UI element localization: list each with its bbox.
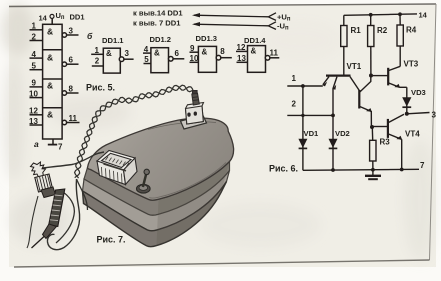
node dot R3 rail: [371, 168, 375, 172]
socket block: [97, 151, 137, 185]
node dot input1/VD1: [301, 84, 305, 88]
svg-text:7: 7: [58, 143, 63, 152]
connector block: [186, 103, 204, 125]
node dot R2 rail: [369, 13, 373, 17]
wire clip lead loop: [56, 190, 74, 243]
IC DD1 body: [43, 24, 63, 139]
svg-text:13: 13: [237, 54, 246, 63]
svg-text:5: 5: [32, 62, 37, 71]
svg-text:&: &: [47, 81, 53, 91]
svg-text:2: 2: [95, 57, 100, 66]
gate symbols &: [47, 27, 53, 120]
svg-text:VT3: VT3: [404, 60, 419, 69]
transistor VT2 phase splitter: [359, 76, 371, 128]
transistor VT4: [388, 114, 420, 169]
output pin 8: [62, 85, 78, 96]
node dot VD2 rail: [331, 168, 335, 172]
output node 3: [405, 111, 437, 120]
pin 10: [29, 89, 43, 98]
cable twisted strand A: [75, 85, 193, 177]
case middle band: [83, 171, 230, 231]
input 1 terminal: [287, 74, 323, 86]
svg-text:14: 14: [419, 11, 428, 20]
svg-text:R2: R2: [377, 26, 388, 35]
node dot crossing: [301, 114, 304, 117]
svg-text:а: а: [34, 139, 39, 149]
svg-text:12: 12: [237, 43, 246, 52]
connector base plate: [181, 116, 207, 130]
output pin 3: [62, 27, 78, 38]
svg-text:Рис. 5.: Рис. 5.: [86, 83, 115, 93]
cable lower run: [47, 179, 79, 250]
svg-text:DD1.4: DD1.4: [244, 36, 266, 45]
ground symbol: [365, 170, 381, 179]
gate DD1.3: [190, 34, 232, 72]
top face inner edge line: [149, 163, 226, 199]
svg-text:3: 3: [125, 49, 130, 58]
node dot R2/VT2/VT3 base: [369, 74, 373, 78]
svg-text:12: 12: [29, 107, 38, 116]
svg-text:9: 9: [32, 79, 37, 88]
svg-text:&: &: [202, 48, 208, 57]
svg-text:2: 2: [32, 32, 37, 41]
socket hatching: [102, 157, 130, 183]
+supply rail pin 14: [344, 11, 428, 20]
gate DD1.1: [91, 36, 133, 73]
diode VD1: [298, 86, 319, 170]
svg-text:DD1.1: DD1.1: [102, 36, 124, 45]
node dot VT4 rail: [400, 168, 404, 172]
svg-text:R4: R4: [406, 26, 417, 35]
node dot input2/VD2: [331, 114, 335, 118]
test probe handle: [32, 189, 65, 248]
pin 1: [30, 22, 43, 31]
case right shading: [157, 162, 230, 246]
pin 5: [30, 62, 43, 71]
lid parting line: [148, 122, 216, 130]
wire probe thin lead: [27, 196, 38, 248]
toggle switch: [137, 169, 151, 193]
connector neck: [192, 91, 200, 106]
svg-text:VD1: VD1: [304, 129, 320, 138]
svg-text:3: 3: [432, 111, 437, 120]
svg-text:11: 11: [270, 49, 279, 58]
net -Uп to pin 7: [133, 19, 289, 32]
wire probes to case: [37, 152, 104, 169]
case top face: [88, 118, 234, 200]
pin 9: [30, 79, 43, 88]
svg-text:6: 6: [175, 49, 180, 58]
svg-text:R1: R1: [351, 26, 362, 35]
svg-text:к выв. 7 DD1: к выв. 7 DD1: [133, 19, 181, 28]
svg-text:1: 1: [95, 46, 100, 55]
pin 12: [29, 107, 43, 116]
svg-text:13: 13: [29, 117, 38, 126]
svg-text:1: 1: [292, 74, 297, 83]
input 2 terminal: [287, 100, 333, 116]
resistor R4: [397, 14, 417, 66]
svg-text:DD1.2: DD1.2: [150, 35, 172, 44]
svg-text:&: &: [47, 110, 53, 120]
svg-text:к выв.14 DD1: к выв.14 DD1: [133, 9, 183, 18]
common rail pin 7: [303, 161, 425, 170]
svg-text:14: 14: [39, 14, 48, 23]
pin 2: [30, 32, 43, 41]
svg-text:&: &: [106, 49, 112, 58]
node dot R4 rail: [398, 12, 402, 16]
svg-text:2: 2: [292, 100, 297, 109]
svg-text:&: &: [47, 27, 53, 37]
svg-text:Рис. 7.: Рис. 7.: [97, 235, 126, 245]
svg-text:VT4: VT4: [405, 130, 420, 139]
svg-text:4: 4: [144, 45, 149, 54]
gate DD1.4: [236, 36, 279, 72]
svg-text:Рис. 6.: Рис. 6.: [269, 164, 298, 174]
svg-text:DD1.3: DD1.3: [196, 34, 218, 43]
svg-text:10: 10: [29, 89, 38, 98]
transistor VT1 multi-emitter: [323, 62, 362, 116]
svg-text:1: 1: [32, 22, 37, 31]
svg-text:5: 5: [144, 55, 149, 64]
diode VD2: [329, 115, 350, 170]
output pin 11: [62, 114, 79, 125]
svg-text:VT1: VT1: [347, 62, 362, 71]
svg-text:R3: R3: [380, 138, 391, 147]
svg-text:&: &: [154, 49, 160, 58]
svg-text:6: 6: [69, 56, 74, 65]
svg-text:7: 7: [420, 161, 425, 170]
case bottom band: [83, 182, 227, 247]
svg-text:DD1: DD1: [70, 13, 85, 22]
svg-text:&: &: [47, 53, 53, 63]
pin 14 power terminal Uп: [39, 11, 85, 24]
resistor R1: [341, 15, 362, 75]
case lid band: [84, 162, 230, 216]
svg-text:VD2: VD2: [335, 129, 350, 138]
cable twisted strand B: [75, 85, 193, 178]
svg-text:3: 3: [69, 27, 74, 36]
svg-text:9: 9: [190, 44, 195, 53]
svg-text:8: 8: [69, 85, 74, 94]
wire VT3 base: [373, 75, 388, 77]
svg-text:б: б: [87, 31, 93, 41]
pin 13: [29, 117, 43, 126]
output pin 6: [62, 56, 78, 67]
diode VD3: [402, 87, 426, 114]
net +Uп to pin 14: [133, 9, 291, 23]
pin 4: [30, 50, 43, 59]
wire VT4 base: [372, 126, 387, 128]
svg-text:4: 4: [32, 50, 37, 59]
gate DD1.2: [143, 35, 184, 73]
pin 7 common terminal: [48, 139, 63, 152]
resistor R2: [368, 15, 388, 75]
resistor R3: [370, 127, 391, 170]
transistor VT3: [388, 60, 419, 88]
cable lower second strand: [77, 179, 88, 210]
svg-text:8: 8: [220, 47, 225, 56]
svg-text:VD3: VD3: [411, 88, 426, 97]
svg-text:&: &: [251, 47, 257, 56]
node dot R3 top: [370, 125, 374, 129]
svg-text:10: 10: [190, 54, 199, 63]
svg-text:11: 11: [69, 114, 78, 123]
alligator clip: [31, 162, 56, 198]
